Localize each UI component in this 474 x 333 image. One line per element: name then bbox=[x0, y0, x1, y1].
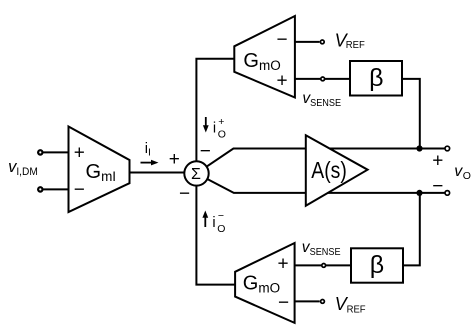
wire GmO bottom - input to VREF terminal bbox=[295, 300, 320, 302]
input terminal + bbox=[38, 150, 42, 154]
wire GmO bottom + input to beta bottom bbox=[295, 264, 351, 266]
block beta top bbox=[350, 61, 402, 96]
svg-text:+: + bbox=[276, 71, 287, 92]
amplifier A(s) bbox=[306, 135, 368, 205]
svg-text:β: β bbox=[369, 64, 383, 92]
wire summer to A(s) upper / output + rail bbox=[197, 149, 448, 174]
svg-text:−: − bbox=[200, 141, 211, 162]
junction output + rail bbox=[416, 145, 422, 151]
svg-text:SENSE: SENSE bbox=[310, 247, 341, 258]
wire input- to GmI bbox=[43, 188, 69, 190]
wire summer up to GmO top bbox=[196, 59, 234, 174]
svg-text:−: − bbox=[276, 29, 287, 50]
block beta bottom bbox=[351, 248, 403, 282]
svg-text:β: β bbox=[370, 251, 384, 279]
svg-text:SENSE: SENSE bbox=[310, 98, 341, 109]
wire input+ to GmI bbox=[43, 151, 69, 153]
svg-text:+: + bbox=[169, 149, 180, 170]
svg-text:O: O bbox=[463, 170, 471, 182]
terminal output - bbox=[445, 191, 450, 196]
svg-text:+: + bbox=[432, 150, 443, 171]
input terminal - bbox=[38, 187, 42, 191]
svg-text:O: O bbox=[218, 129, 226, 141]
terminal VREF bottom bbox=[321, 300, 325, 304]
wire GmO top - input to VREF terminal bbox=[295, 41, 320, 43]
svg-text:+: + bbox=[218, 116, 224, 128]
svg-text:REF: REF bbox=[347, 304, 366, 315]
terminal output + bbox=[445, 146, 450, 151]
svg-text:−: − bbox=[278, 293, 289, 314]
svg-text:−: − bbox=[179, 183, 190, 204]
svg-text:REF: REF bbox=[346, 40, 365, 51]
wire summer down to GmO bottom bbox=[196, 173, 235, 284]
svg-text:O: O bbox=[217, 223, 225, 235]
node vSENSE top bbox=[321, 77, 325, 81]
amplifier GmO bottom bbox=[235, 243, 295, 323]
junction output - rail bbox=[416, 190, 422, 196]
summing node bbox=[184, 161, 208, 185]
wire beta top to output + rail bbox=[402, 79, 420, 149]
wire GmI output to summer bbox=[130, 172, 191, 174]
svg-text:i: i bbox=[212, 215, 215, 231]
svg-text:A(s): A(s) bbox=[311, 157, 347, 183]
svg-text:i: i bbox=[213, 120, 216, 136]
node vSENSE bottom bbox=[322, 264, 326, 268]
svg-text:+: + bbox=[277, 254, 288, 275]
svg-text:−: − bbox=[74, 179, 85, 200]
amplifier GmO top bbox=[234, 16, 295, 98]
arrow iI bbox=[141, 160, 159, 166]
arrow iO+ down bbox=[203, 117, 209, 133]
terminal VREF top bbox=[320, 40, 324, 44]
amplifier GmI bbox=[69, 127, 130, 213]
arrow iO- up bbox=[202, 211, 208, 228]
wire summer to A(s) lower / output - rail bbox=[197, 173, 448, 193]
wire GmO top + input to beta top bbox=[295, 78, 350, 80]
wire beta bottom to output - rail bbox=[403, 193, 420, 266]
svg-text:+: + bbox=[74, 143, 85, 164]
svg-text:Σ: Σ bbox=[191, 166, 201, 183]
svg-text:−: − bbox=[218, 210, 224, 222]
svg-text:−: − bbox=[432, 176, 443, 197]
